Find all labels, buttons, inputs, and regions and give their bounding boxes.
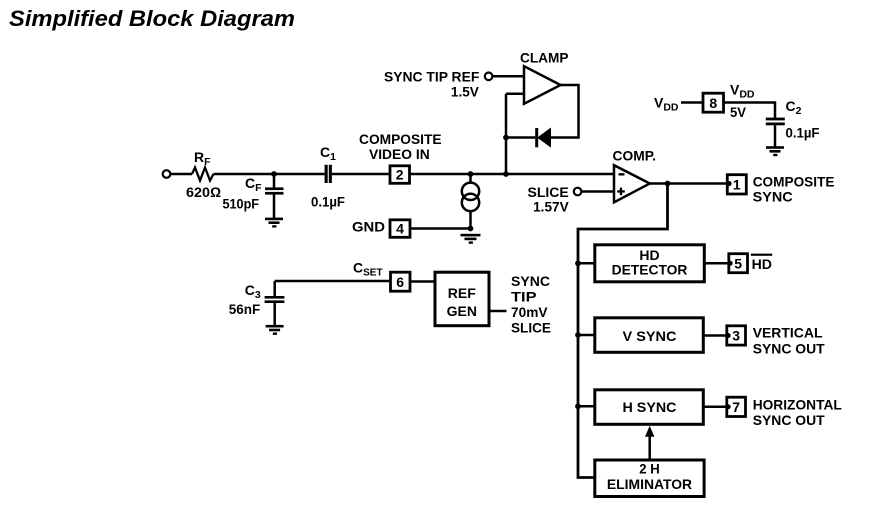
resistor RF	[192, 168, 214, 181]
node junction at CF	[271, 171, 277, 177]
diode	[538, 129, 551, 147]
svg-text:5V: 5V	[730, 104, 747, 120]
slice terminal	[574, 188, 582, 196]
current source	[469, 174, 472, 184]
svg-text:SYNC OUT: SYNC OUT	[753, 340, 825, 356]
svg-text:DETECTOR: DETECTOR	[612, 262, 688, 278]
pin 5 box	[729, 254, 748, 273]
svg-text:GEN: GEN	[447, 303, 477, 319]
node bus HD	[575, 260, 581, 266]
wire resistor to C1	[214, 173, 325, 176]
ground below current source	[461, 234, 481, 244]
svg-text:SYNC TIP REF: SYNC TIP REF	[384, 68, 480, 84]
pin 4 box	[390, 220, 410, 238]
capacitor CF	[273, 174, 276, 188]
pin 8 box	[703, 93, 724, 112]
pin 1 box	[727, 175, 746, 194]
op-amp CLAMP	[524, 66, 561, 104]
block REF GEN	[435, 272, 489, 326]
svg-text:2: 2	[396, 167, 404, 183]
svg-text:ELIMINATOR: ELIMINATOR	[607, 476, 692, 492]
svg-text:0.1µF: 0.1µF	[786, 125, 820, 141]
node GND junction	[468, 226, 474, 232]
svg-text:3: 3	[732, 328, 740, 344]
input terminal	[163, 170, 171, 178]
svg-text:510pF: 510pF	[223, 196, 260, 212]
svg-text:H SYNC: H SYNC	[623, 399, 677, 415]
svg-text:8: 8	[709, 95, 717, 111]
block HD DETECTOR	[595, 245, 705, 282]
svg-text:HD: HD	[752, 256, 772, 272]
svg-text:V SYNC: V SYNC	[623, 328, 677, 344]
wire pin 6 to ref gen	[410, 280, 435, 283]
wire pin 4 to ground node	[410, 227, 471, 230]
node diode junction	[503, 135, 509, 141]
svg-text:SYNC: SYNC	[511, 273, 550, 289]
node video line junction	[503, 171, 509, 177]
ground below CF	[265, 218, 283, 228]
svg-text:7: 7	[732, 399, 740, 415]
capacitor C1	[325, 165, 328, 183]
wire clamp output feedback	[550, 85, 579, 138]
arrow 2H eliminator to H sync	[648, 435, 651, 460]
wire branch down to bus	[578, 184, 668, 478]
wire terminal to clamp	[493, 75, 524, 78]
node bus V sync	[575, 332, 581, 338]
svg-text:4: 4	[396, 221, 404, 237]
wire C1 to pin 2	[332, 173, 389, 176]
svg-text:SYNC: SYNC	[753, 188, 793, 204]
svg-text:5: 5	[734, 256, 742, 272]
svg-text:620Ω: 620Ω	[186, 184, 221, 200]
node comparator output	[665, 181, 671, 187]
svg-text:CLAMP: CLAMP	[520, 50, 569, 66]
wire pin 8 to C2	[724, 103, 776, 119]
svg-text:SLICE: SLICE	[511, 320, 551, 336]
node pin1 dot	[726, 181, 732, 187]
wire input to resistor	[171, 173, 193, 176]
wire slice to comparator	[582, 190, 614, 193]
svg-text:1: 1	[733, 177, 741, 193]
wire VDD to pin 8	[681, 101, 703, 104]
svg-text:SYNC OUT: SYNC OUT	[753, 412, 825, 428]
svg-text:VIDEO IN: VIDEO IN	[369, 146, 430, 162]
wire C3 to pin 6	[275, 280, 390, 283]
ground below C2	[766, 146, 784, 156]
wire comparator output to pin 1	[650, 182, 729, 185]
svg-text:HORIZONTAL: HORIZONTAL	[753, 396, 843, 412]
svg-text:Simplified Block Diagram: Simplified Block Diagram	[9, 6, 295, 31]
wire bus to H sync	[578, 405, 595, 408]
svg-text:1.57V: 1.57V	[533, 199, 569, 215]
pin 6 box	[391, 272, 411, 291]
pin 7 box	[727, 397, 746, 416]
svg-text:56nF: 56nF	[229, 301, 261, 317]
svg-text:2 H: 2 H	[639, 460, 659, 476]
wire diode to node	[506, 136, 535, 139]
wire bus to V sync	[578, 334, 595, 337]
node at current source	[468, 171, 474, 177]
svg-text:70mV: 70mV	[511, 304, 548, 320]
block V SYNC	[595, 318, 704, 353]
wire HD detector to pin 5	[704, 262, 730, 265]
wire ref gen output stub	[489, 310, 507, 313]
wire clamp feedback vertical	[505, 94, 508, 174]
svg-text:0.1µF: 0.1µF	[311, 194, 345, 210]
sync tip ref terminal	[485, 73, 493, 81]
svg-text:VERTICAL: VERTICAL	[753, 325, 823, 341]
wire bus to HD detector	[578, 262, 595, 265]
block 2H ELIMINATOR	[595, 460, 704, 497]
wire feedback into clamp	[506, 93, 524, 96]
svg-text:COMPOSITE: COMPOSITE	[359, 131, 442, 147]
svg-text:REF: REF	[448, 285, 476, 301]
op-amp COMP	[614, 165, 650, 202]
wire H sync to pin 7	[703, 406, 728, 409]
node bus H sync	[575, 403, 581, 409]
svg-text:COMP.: COMP.	[613, 148, 657, 164]
block H SYNC	[595, 390, 704, 425]
wire pin 2 to comparator	[410, 173, 615, 176]
svg-text:COMPOSITE: COMPOSITE	[753, 173, 835, 189]
pin 2 box	[390, 166, 410, 184]
ground below C3	[266, 325, 284, 335]
capacitor C3	[273, 281, 276, 296]
svg-text:TIP: TIP	[511, 288, 537, 304]
wire V sync to pin 3	[703, 334, 728, 337]
svg-text:1.5V: 1.5V	[451, 84, 480, 100]
svg-text:GND: GND	[352, 219, 385, 235]
pin 3 box	[727, 326, 746, 345]
svg-text:6: 6	[396, 274, 404, 290]
capacitor C2	[766, 118, 785, 121]
